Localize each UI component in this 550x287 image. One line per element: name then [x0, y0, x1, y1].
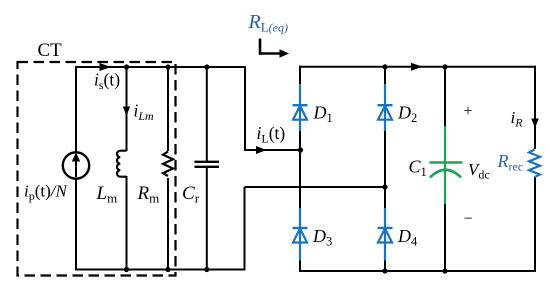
wire: return wire to bridge mid column: [245, 186, 386, 188]
svg-text:Cr: Cr: [182, 183, 200, 206]
diode D1: [293, 84, 308, 131]
label D2: [397, 103, 417, 126]
label ip(t)/N: [24, 182, 69, 204]
wire: bridge top rail: [299, 66, 536, 68]
wire: bridge left column: [299, 66, 301, 272]
svg-text:Rrec: Rrec: [497, 151, 524, 174]
svg-text:Lm: Lm: [96, 183, 118, 206]
diode D2: [378, 84, 393, 131]
svg-text:Vdc: Vdc: [468, 160, 490, 182]
junction dots on bridge top rail: [382, 64, 447, 69]
label D3: [312, 226, 332, 249]
label Cr: [182, 183, 200, 206]
inductor Lm branch: [117, 67, 126, 270]
svg-text:iR: iR: [511, 108, 524, 130]
svg-text:+: +: [464, 103, 473, 120]
current arrow iLm on Lm branch: [123, 107, 130, 117]
current arrow on bridge top rail: [411, 63, 423, 71]
wire: return riser at x=244.5: [244, 187, 246, 271]
svg-text:−: −: [464, 211, 473, 228]
current arrow is(t) on top rail: [100, 63, 112, 71]
wire: right column with load: [534, 66, 536, 272]
RL(eq) port arrow: [260, 39, 289, 58]
label D1: [313, 103, 333, 126]
current arrow iL(t): [256, 146, 267, 154]
svg-text:iL(t): iL(t): [257, 123, 286, 146]
wire: step-down segment to iL wire: [244, 66, 246, 150]
capacitor C1 branch: [430, 66, 463, 272]
minus sign: [464, 211, 473, 228]
label Lm: [96, 183, 118, 206]
wire: top rail of CT circuit: [76, 66, 246, 68]
label RL(eq): [248, 11, 289, 35]
junction dots on bridge bottom rail: [382, 268, 447, 273]
svg-text:CT: CT: [38, 40, 63, 61]
svg-text:iLm: iLm: [134, 101, 155, 124]
wire: bridge bottom rail: [299, 270, 536, 272]
wire: iL(t) wire into bridge: [244, 149, 301, 151]
label is(t): [94, 70, 120, 93]
current arrow iR: [531, 119, 539, 129]
resistor Rm branch: [163, 67, 173, 270]
svg-text:D4: D4: [397, 226, 418, 249]
svg-text:RL(eq): RL(eq): [248, 11, 289, 35]
junction dots on CT bottom rail: [124, 267, 209, 272]
svg-text:D2: D2: [397, 103, 417, 126]
current source ip(t)/N: [63, 66, 89, 271]
label Rrec: [497, 151, 524, 174]
label Vdc: [468, 160, 490, 182]
junction node mid column return: [382, 184, 387, 189]
svg-text:D1: D1: [313, 103, 333, 126]
wire: bridge middle column: [384, 66, 386, 272]
wire: bottom rail of CT circuit: [76, 269, 246, 271]
label iR: [511, 108, 524, 130]
label iLm: [134, 101, 155, 124]
resistor Rrec: [529, 150, 540, 178]
label Rm: [137, 183, 160, 206]
label D4: [397, 226, 418, 249]
label iL(t): [257, 123, 286, 146]
label CT: [38, 40, 63, 61]
junction node at bridge input: [298, 147, 303, 152]
svg-text:is(t): is(t): [94, 70, 120, 93]
CT dashed transformer boundary box: [18, 62, 176, 276]
label C1: [409, 157, 427, 180]
capacitor Cr branch: [195, 67, 220, 270]
svg-text:D3: D3: [312, 226, 332, 249]
diode D4: [378, 208, 393, 261]
diode D3: [293, 208, 308, 261]
svg-text:ip(t)/N: ip(t)/N: [24, 182, 69, 204]
plus sign: [464, 103, 473, 120]
svg-text:C1: C1: [409, 157, 427, 180]
junction dots on CT top rail: [124, 64, 209, 69]
svg-text:Rm: Rm: [137, 183, 160, 206]
